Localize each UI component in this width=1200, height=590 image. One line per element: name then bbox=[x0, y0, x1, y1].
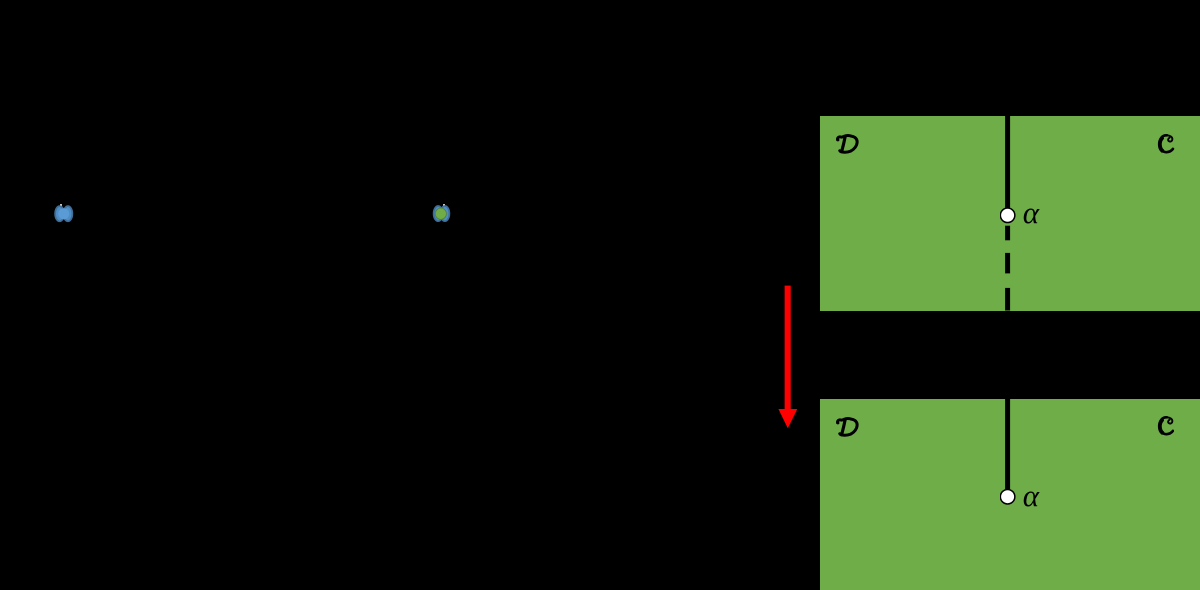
top panel label alpha bbox=[1023, 195, 1051, 229]
pair of blue defect lobes (left mark) bbox=[48, 196, 84, 232]
bottom panel label D (script) bbox=[835, 413, 859, 439]
dashed continuation bbox=[1005, 226, 1010, 241]
white speck on fused mark bbox=[443, 204, 445, 206]
bottom panel label C (script) bbox=[1157, 414, 1175, 438]
wire solid bbox=[1005, 115, 1010, 208]
red downward arrow bbox=[770, 283, 806, 431]
top panel label C (script) bbox=[1157, 132, 1175, 156]
white endpoint circle bbox=[1000, 208, 1015, 223]
top panel: green rectangle bbox=[820, 116, 1200, 311]
fused defect: blue pair with green circle (right mark) bbox=[426, 196, 462, 232]
top panel label D (script) bbox=[835, 130, 859, 156]
white speck on left mark bbox=[60, 204, 62, 206]
bottom panel: green rectangle bbox=[820, 399, 1200, 590]
bottom panel defect line bbox=[1000, 398, 1020, 590]
bottom panel label alpha bbox=[1023, 478, 1051, 512]
top panel defect line (solid part) bbox=[1000, 115, 1020, 315]
